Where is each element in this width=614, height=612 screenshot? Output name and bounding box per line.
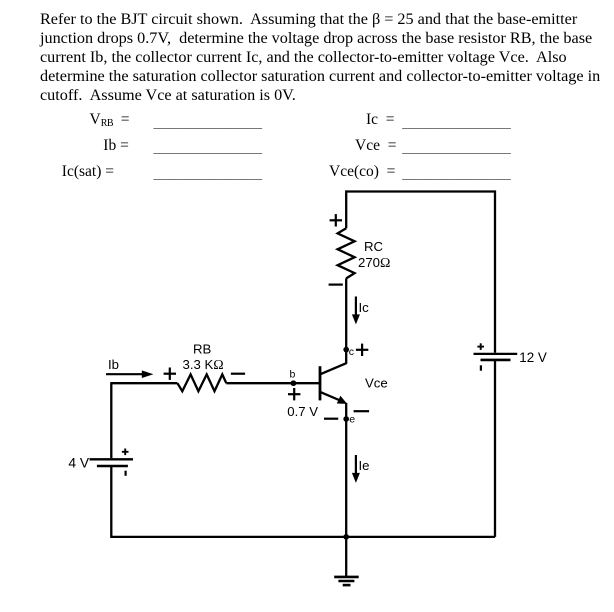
fill-in blank Vce xyxy=(402,139,511,157)
resistor RB zigzag xyxy=(177,374,226,391)
node c dot xyxy=(343,347,349,353)
svg-text:b: b xyxy=(290,369,296,381)
wire emitter vertical (to bottom rail) xyxy=(345,403,347,537)
wire collector vertical (RC to transistor) xyxy=(345,278,347,363)
junction dot bottom rail xyxy=(343,534,349,540)
fill-in blank Ic(sat) xyxy=(154,165,263,183)
transistor Q1 collector diagonal xyxy=(321,363,347,374)
transistor Q1 base bar xyxy=(319,366,322,400)
polarity minus RC xyxy=(329,284,343,286)
transistor Q1 emitter diagonal xyxy=(321,392,343,401)
fill-in label Ic(sat) = xyxy=(62,163,114,181)
wire left rail lower (4V battery to bottom) xyxy=(110,466,112,538)
svg-text:0.7 V: 0.7 V xyxy=(287,404,318,419)
svg-text:4 V: 4 V xyxy=(68,455,90,470)
current arrow Ie xyxy=(352,455,360,483)
svg-text:Ie: Ie xyxy=(359,458,370,473)
svg-text:c: c xyxy=(349,346,354,358)
ground bar 1 xyxy=(334,576,359,579)
wire RC top lead xyxy=(345,190,347,228)
current arrow Ic xyxy=(352,297,360,325)
svg-text:270Ω: 270Ω xyxy=(358,255,390,271)
current arrow Ib xyxy=(106,370,153,378)
fill-in blank Vce(co) xyxy=(402,165,511,183)
battery B1 4V bottom plate xyxy=(97,465,128,468)
transistor Q1 emitter arrowhead xyxy=(337,396,347,404)
fill-in blank VRB xyxy=(154,114,263,132)
node b dot xyxy=(291,380,297,386)
svg-text:Vce: Vce xyxy=(365,376,388,391)
svg-text:12 V: 12 V xyxy=(519,350,547,365)
wire base right (RB to transistor base) xyxy=(226,382,319,384)
polarity minus emitter right xyxy=(354,410,370,412)
svg-text:Ib: Ib xyxy=(108,357,119,372)
fill-in label VRB = xyxy=(90,111,130,129)
wire base left (to RB) xyxy=(111,382,177,384)
fill-in blank Ic xyxy=(402,114,511,132)
battery B2 12V bottom plate xyxy=(481,359,511,362)
polarity minus emitter left xyxy=(324,418,338,420)
svg-text:3.3 KΩ: 3.3 KΩ xyxy=(183,357,224,373)
polarity plus RB xyxy=(164,368,176,380)
battery B2 12V top plate xyxy=(474,353,518,355)
fill-in label Vce = xyxy=(355,137,396,155)
battery B1 4V top plate xyxy=(90,458,134,460)
ground stem xyxy=(345,536,347,577)
fill-in label Ic = xyxy=(366,111,395,129)
ground bar 2 xyxy=(338,580,354,583)
polarity minus RB xyxy=(231,373,245,375)
wire bottom rail xyxy=(111,536,495,538)
svg-text:RB: RB xyxy=(193,341,212,356)
polarity plus collector xyxy=(356,344,368,356)
battery B2 plus mark xyxy=(477,343,484,350)
svg-text:RC: RC xyxy=(364,239,384,254)
wire right rail lower (12V battery to bottom) xyxy=(494,360,496,537)
svg-text:e: e xyxy=(349,414,355,426)
svg-text:Ic: Ic xyxy=(359,300,370,315)
fill-in label Ib = xyxy=(103,137,129,155)
ground bar 3 xyxy=(343,584,351,587)
node e dot xyxy=(343,416,349,422)
wire right rail upper (to 12V battery) xyxy=(494,190,496,352)
wire left rail upper (base node to 4V battery) xyxy=(110,382,112,458)
polarity plus base xyxy=(288,388,300,400)
fill-in blank Ib xyxy=(154,139,263,157)
wire top (RC top to right rail) xyxy=(346,190,495,192)
battery B1 minus tick xyxy=(124,471,126,476)
battery B1 plus mark xyxy=(122,449,129,456)
resistor RC zigzag xyxy=(338,228,355,278)
fill-in label Vce(co) = xyxy=(329,163,395,181)
polarity plus RC xyxy=(330,214,342,226)
problem statement paragraph xyxy=(40,10,600,105)
battery B2 minus tick xyxy=(480,365,482,370)
